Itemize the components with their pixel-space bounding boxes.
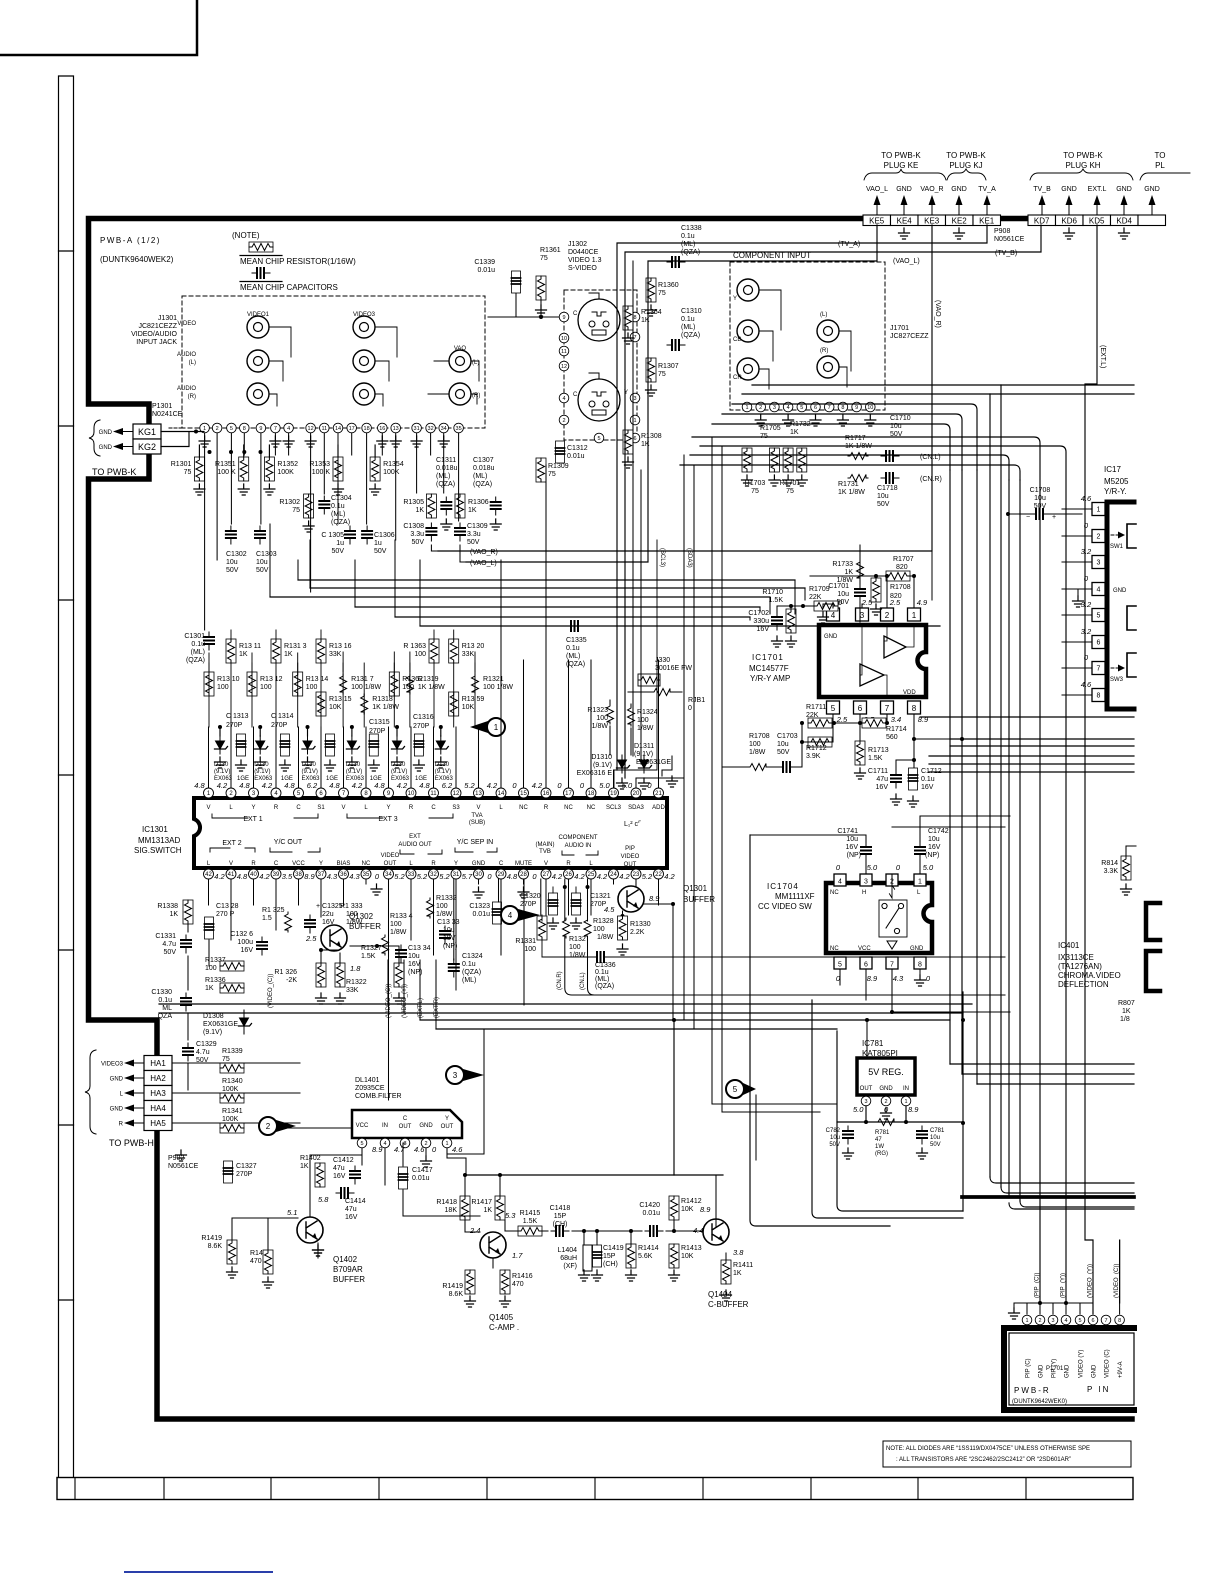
- svg-text:C-BUFFER: C-BUFFER: [708, 1300, 749, 1309]
- svg-text:NC: NC: [830, 890, 839, 896]
- svg-text:R1416: R1416: [512, 1273, 533, 1280]
- svg-text:(9.1V): (9.1V): [203, 1029, 222, 1036]
- svg-text:100: 100: [260, 684, 272, 691]
- svg-text:4.7u: 4.7u: [162, 941, 176, 948]
- svg-text:8.9: 8.9: [908, 1105, 919, 1114]
- svg-text:16V: 16V: [757, 626, 770, 633]
- svg-text:C1742: C1742: [928, 828, 949, 835]
- svg-text:100: 100: [390, 921, 402, 928]
- svg-text:R131 3: R131 3: [284, 643, 307, 650]
- svg-text:820: 820: [896, 564, 908, 571]
- svg-text:D1311: D1311: [634, 743, 654, 750]
- svg-text:GND: GND: [1144, 186, 1160, 193]
- svg-text:10u: 10u: [226, 559, 238, 566]
- svg-text:0: 0: [836, 863, 841, 872]
- svg-text:C1339: C1339: [474, 259, 495, 266]
- svg-text:GND: GND: [99, 430, 113, 436]
- svg-text:25: 25: [588, 872, 595, 878]
- svg-text:C1331: C1331: [155, 933, 176, 940]
- svg-text:C1417: C1417: [412, 1167, 433, 1174]
- svg-text:22K: 22K: [809, 594, 822, 601]
- svg-text:EX063: EX063: [346, 776, 365, 782]
- svg-text:M5205: M5205: [1104, 477, 1129, 486]
- svg-text:3: 3: [1097, 560, 1101, 567]
- svg-text:R1306: R1306: [468, 499, 489, 506]
- svg-text:R1302: R1302: [279, 499, 300, 506]
- svg-text:8.6K: 8.6K: [208, 1243, 223, 1250]
- svg-text:R1339: R1339: [222, 1048, 243, 1055]
- svg-text:(SDA3): (SDA3): [686, 548, 692, 568]
- svg-text:C1302: C1302: [226, 551, 247, 558]
- svg-text:NC: NC: [564, 805, 573, 811]
- svg-text:PIP (Y): PIP (Y): [1052, 1359, 1058, 1378]
- svg-text:50V: 50V: [777, 749, 790, 756]
- svg-text:50V: 50V: [374, 548, 387, 555]
- svg-text:MEAN CHIP CAPACITORS: MEAN CHIP CAPACITORS: [240, 283, 338, 292]
- svg-text:4.8: 4.8: [194, 781, 205, 790]
- svg-text:1: 1: [494, 723, 499, 732]
- svg-text:D130: D130: [254, 762, 269, 768]
- svg-text:(MAIN): (MAIN): [536, 842, 555, 848]
- svg-text:3: 3: [864, 1099, 867, 1105]
- svg-text:L: L: [120, 1092, 124, 1098]
- svg-text:1K: 1K: [790, 429, 799, 436]
- svg-text:R1411: R1411: [733, 1262, 753, 1269]
- svg-text:1K 1/8W: 1K 1/8W: [418, 684, 445, 691]
- svg-text:14: 14: [335, 426, 341, 432]
- svg-text:IC401: IC401: [1058, 941, 1080, 950]
- svg-text:50V: 50V: [412, 539, 425, 546]
- svg-text:BUFFER: BUFFER: [683, 895, 715, 904]
- svg-text:4.6: 4.6: [1081, 680, 1092, 689]
- svg-text:(SCL3): (SCL3): [659, 548, 665, 567]
- svg-text:L₁² c⌜: L₁² c⌜: [624, 820, 641, 828]
- svg-text:0.1u: 0.1u: [158, 997, 172, 1004]
- svg-text:4.2: 4.2: [214, 872, 225, 881]
- svg-text:10u: 10u: [877, 493, 889, 500]
- svg-text:R1413: R1413: [681, 1245, 702, 1252]
- svg-text:C1323: C1323: [469, 903, 490, 910]
- svg-text:10u: 10u: [408, 953, 420, 960]
- svg-text:1GE: 1GE: [281, 776, 293, 782]
- svg-text:NC: NC: [362, 861, 371, 867]
- svg-text:R1709: R1709: [809, 586, 830, 593]
- svg-text:C782: C782: [826, 1128, 841, 1134]
- svg-text:4: 4: [1064, 1318, 1067, 1324]
- svg-text:(ML): (ML): [681, 324, 695, 331]
- svg-text:0.01u: 0.01u: [412, 1175, 430, 1182]
- svg-text:9: 9: [855, 405, 858, 411]
- svg-text:75: 75: [548, 471, 556, 478]
- svg-text:4.8: 4.8: [419, 781, 430, 790]
- svg-text:KD4: KD4: [1116, 217, 1132, 226]
- svg-text:R: R: [431, 861, 436, 867]
- svg-text:R807: R807: [1118, 1000, 1135, 1007]
- svg-text:EX063: EX063: [214, 776, 233, 782]
- svg-text:10K: 10K: [681, 1206, 694, 1213]
- svg-text:S3: S3: [452, 805, 460, 811]
- svg-text:18: 18: [588, 791, 595, 797]
- svg-text:(TV_A): (TV_A): [838, 241, 860, 248]
- svg-text:(DUNTK9640WEK2): (DUNTK9640WEK2): [100, 255, 174, 264]
- svg-text:Q1405: Q1405: [489, 1313, 514, 1322]
- svg-text:28: 28: [520, 872, 527, 878]
- svg-text:31: 31: [414, 426, 420, 432]
- svg-text:1.5K: 1.5K: [769, 597, 784, 604]
- svg-text:R1710: R1710: [762, 589, 783, 596]
- svg-text:0.1u: 0.1u: [566, 645, 580, 652]
- svg-text:OUT: OUT: [384, 861, 397, 867]
- svg-text:270P: 270P: [236, 1171, 253, 1178]
- svg-text:SCL3: SCL3: [606, 805, 622, 811]
- svg-text:SW3: SW3: [1110, 677, 1124, 683]
- svg-text:R1352: R1352: [277, 461, 298, 468]
- svg-text:33K: 33K: [346, 987, 359, 994]
- svg-text:4.8: 4.8: [329, 781, 340, 790]
- svg-text:100 K: 100 K: [312, 469, 331, 476]
- svg-text:(ML): (ML): [473, 473, 487, 480]
- svg-text:R: R: [119, 1122, 124, 1128]
- svg-text:18: 18: [364, 426, 370, 432]
- svg-text:3: 3: [860, 611, 865, 620]
- svg-text:(TA1276AN): (TA1276AN): [1058, 962, 1102, 971]
- svg-text:4.2: 4.2: [597, 872, 608, 881]
- svg-text:7: 7: [1104, 1318, 1107, 1324]
- svg-text:8.9: 8.9: [867, 974, 878, 983]
- svg-text:V: V: [206, 805, 210, 811]
- svg-text:270P: 270P: [271, 722, 288, 729]
- svg-text:GND: GND: [1092, 1364, 1098, 1378]
- svg-text:R1301: R1301: [171, 461, 192, 468]
- svg-text:TVB: TVB: [539, 849, 551, 855]
- svg-text:4: 4: [562, 396, 565, 402]
- svg-text:(9.1V): (9.1V): [346, 769, 362, 775]
- svg-text:EX063: EX063: [302, 776, 321, 782]
- svg-text:47u: 47u: [876, 776, 888, 783]
- svg-text:D1308: D1308: [203, 1013, 224, 1020]
- svg-text:GND: GND: [951, 186, 967, 193]
- svg-text:4.2: 4.2: [487, 781, 498, 790]
- svg-text:560: 560: [886, 734, 898, 741]
- svg-text:8: 8: [1097, 693, 1101, 700]
- svg-text:1.5K: 1.5K: [361, 953, 376, 960]
- svg-text:15P: 15P: [554, 1213, 567, 1220]
- svg-text:33: 33: [408, 872, 415, 878]
- svg-text:5.6K: 5.6K: [638, 1253, 653, 1260]
- svg-text:C1741: C1741: [837, 828, 858, 835]
- svg-text:R1323: R1323: [587, 707, 608, 714]
- svg-text:10u: 10u: [830, 1135, 840, 1141]
- svg-text:C: C: [431, 805, 436, 811]
- svg-text:R1708: R1708: [749, 733, 770, 740]
- svg-text:8: 8: [243, 426, 246, 432]
- svg-text:BIAS: BIAS: [337, 861, 351, 867]
- svg-text:4: 4: [383, 1141, 386, 1147]
- svg-text:C1312: C1312: [567, 445, 588, 452]
- svg-text:+: +: [1052, 514, 1056, 521]
- svg-text:C1718: C1718: [877, 485, 898, 492]
- svg-text:0: 0: [557, 781, 562, 790]
- svg-text:50V: 50V: [829, 1142, 840, 1148]
- svg-text:21: 21: [655, 791, 662, 797]
- svg-text:OUT: OUT: [399, 1124, 412, 1130]
- svg-text:R1309: R1309: [548, 463, 569, 470]
- svg-text:KD6: KD6: [1061, 217, 1077, 226]
- svg-text:1K: 1K: [1122, 1008, 1131, 1015]
- svg-text:1/8W: 1/8W: [569, 952, 586, 959]
- svg-text:C1316: C1316: [413, 714, 434, 721]
- svg-text:30: 30: [475, 872, 482, 878]
- svg-text:5: 5: [597, 436, 600, 442]
- svg-text:R1417: R1417: [471, 1199, 492, 1206]
- svg-text:47: 47: [875, 1137, 882, 1143]
- svg-text:13: 13: [475, 791, 482, 797]
- svg-text:2: 2: [562, 418, 565, 424]
- svg-text:4.2: 4.2: [262, 781, 273, 790]
- svg-text:29: 29: [498, 872, 505, 878]
- svg-text:ADD: ADD: [652, 805, 665, 811]
- svg-text:1.5K: 1.5K: [868, 755, 883, 762]
- svg-text:R1353: R1353: [309, 461, 330, 468]
- svg-text:1K: 1K: [733, 1270, 742, 1277]
- svg-text:V: V: [476, 805, 480, 811]
- svg-text:R13 20: R13 20: [462, 643, 485, 650]
- svg-text:100: 100: [436, 903, 448, 910]
- svg-text:EXT: EXT: [409, 834, 421, 840]
- svg-text:100: 100: [596, 715, 608, 722]
- svg-text:RJB1: RJB1: [688, 697, 705, 704]
- svg-text:8: 8: [918, 962, 922, 969]
- svg-text:C1304: C1304: [331, 495, 352, 502]
- svg-text:5: 5: [230, 426, 233, 432]
- svg-text:1K: 1K: [844, 569, 853, 576]
- svg-text:P908: P908: [994, 228, 1010, 235]
- svg-text:R1708: R1708: [890, 584, 911, 591]
- svg-text:0: 0: [512, 781, 517, 790]
- svg-text:R1415: R1415: [520, 1210, 541, 1217]
- svg-text:5.8: 5.8: [318, 1195, 329, 1204]
- svg-text:KE1: KE1: [979, 217, 995, 226]
- svg-text:30016E FW: 30016E FW: [655, 665, 692, 672]
- svg-text:VCC: VCC: [858, 946, 871, 952]
- svg-text:4: 4: [508, 911, 513, 920]
- svg-text:33K: 33K: [329, 651, 342, 658]
- svg-text:0.1u: 0.1u: [462, 961, 476, 968]
- svg-text:5.1: 5.1: [287, 1208, 297, 1217]
- svg-text:R13 11: R13 11: [239, 643, 261, 650]
- svg-text:KD5: KD5: [1089, 217, 1105, 226]
- svg-text:EX063: EX063: [391, 776, 410, 782]
- svg-text:(DUNTK9642WEK0): (DUNTK9642WEK0): [1012, 1399, 1067, 1405]
- svg-text:41: 41: [228, 872, 235, 878]
- svg-text:5.2: 5.2: [394, 872, 405, 881]
- svg-text:R: R: [274, 805, 279, 811]
- svg-text:(CN.R): (CN.R): [920, 476, 942, 483]
- svg-text:(9.1V): (9.1V): [391, 769, 407, 775]
- svg-text:3.3K: 3.3K: [1104, 868, 1119, 875]
- svg-text:B709AR: B709AR: [333, 1265, 363, 1274]
- svg-text:GND: GND: [896, 186, 912, 193]
- svg-text:EXT 3: EXT 3: [378, 816, 397, 823]
- svg-text:VIDEO/AUDIO: VIDEO/AUDIO: [131, 331, 177, 338]
- svg-text:8.9: 8.9: [304, 872, 315, 881]
- svg-text:7: 7: [890, 962, 894, 969]
- svg-text:(9.1V): (9.1V): [214, 769, 230, 775]
- svg-text:Y: Y: [445, 1116, 449, 1122]
- svg-text:24: 24: [610, 872, 617, 878]
- svg-text:4.6: 4.6: [1081, 494, 1092, 503]
- svg-text:GND: GND: [99, 445, 113, 451]
- svg-text:+ C1325: + C1325: [316, 903, 343, 910]
- svg-text:C1330: C1330: [151, 989, 172, 996]
- svg-text:8.9: 8.9: [700, 1205, 711, 1214]
- svg-text:R1 325: R1 325: [262, 907, 285, 914]
- svg-text:100: 100: [569, 944, 581, 951]
- svg-text:3: 3: [773, 405, 776, 411]
- svg-text:0: 0: [896, 863, 901, 872]
- svg-text:TV_B: TV_B: [1033, 186, 1051, 193]
- svg-text:TO PWB-K: TO PWB-K: [92, 467, 136, 477]
- svg-text:R814: R814: [1101, 860, 1118, 867]
- svg-text:40: 40: [250, 872, 257, 878]
- svg-text:R1331: R1331: [515, 938, 536, 945]
- svg-text:7: 7: [274, 426, 277, 432]
- svg-text:100K: 100K: [277, 469, 294, 476]
- svg-text:C132 6: C132 6: [230, 931, 253, 938]
- svg-text:100K: 100K: [383, 469, 400, 476]
- svg-text:16V: 16V: [846, 844, 859, 851]
- svg-text:J1701: J1701: [890, 325, 909, 332]
- svg-text:0: 0: [647, 781, 652, 790]
- svg-text:R1324: R1324: [637, 709, 658, 716]
- svg-text:Y/C SEP IN: Y/C SEP IN: [457, 839, 493, 846]
- svg-text:6.2: 6.2: [442, 781, 453, 790]
- svg-text:50V: 50V: [226, 567, 239, 574]
- svg-text:16V: 16V: [928, 844, 941, 851]
- svg-text:4.7: 4.7: [394, 1145, 405, 1154]
- svg-text:17: 17: [349, 426, 355, 432]
- svg-text:NOTE: ALL DIODES ARE “1SS119/D: NOTE: ALL DIODES ARE “1SS119/DX0475CE” U…: [886, 1446, 1090, 1452]
- svg-text:6: 6: [1097, 640, 1101, 647]
- svg-text:0.01u: 0.01u: [477, 267, 495, 274]
- svg-text:20: 20: [633, 791, 640, 797]
- svg-text:4.2: 4.2: [532, 781, 543, 790]
- svg-text:R1330: R1330: [630, 921, 651, 928]
- svg-text:VAO_R: VAO_R: [920, 186, 943, 193]
- svg-text:VIDEO: VIDEO: [177, 321, 196, 327]
- svg-text:4.8: 4.8: [284, 781, 295, 790]
- svg-text:4: 4: [1097, 587, 1101, 594]
- svg-text:OUT: OUT: [860, 1086, 873, 1092]
- svg-text:D1310: D1310: [591, 754, 612, 761]
- svg-text:R1703: R1703: [745, 480, 766, 487]
- svg-text:R13 59: R13 59: [462, 696, 485, 703]
- svg-text:TO PWB-H: TO PWB-H: [109, 1138, 154, 1148]
- svg-text:10u: 10u: [256, 559, 268, 566]
- svg-text:16V: 16V: [345, 1214, 358, 1221]
- svg-text:R13 15: R13 15: [329, 696, 352, 703]
- svg-text:39: 39: [273, 872, 280, 878]
- svg-text:0: 0: [432, 1145, 437, 1154]
- svg-text:R1717: R1717: [845, 435, 866, 442]
- svg-text:50V: 50V: [877, 501, 890, 508]
- svg-text:R1713: R1713: [868, 747, 889, 754]
- svg-text:42: 42: [205, 872, 212, 878]
- svg-text:R1705: R1705: [760, 425, 781, 432]
- svg-text:5: 5: [733, 1085, 738, 1094]
- svg-text:2: 2: [1097, 534, 1101, 541]
- svg-text:C1327: C1327: [236, 1163, 257, 1170]
- svg-text:R131 7: R131 7: [351, 676, 374, 683]
- svg-text:4.8: 4.8: [239, 781, 250, 790]
- svg-text:100 1/8W: 100 1/8W: [351, 684, 381, 691]
- svg-text:N0561CE: N0561CE: [994, 236, 1025, 243]
- svg-text:14: 14: [498, 791, 505, 797]
- svg-text:Q1301: Q1301: [683, 884, 708, 893]
- svg-text:(QZA): (QZA): [186, 657, 205, 664]
- svg-text:(NOTE): (NOTE): [232, 231, 260, 240]
- svg-text:D130: D130: [346, 762, 361, 768]
- svg-text:3: 3: [453, 1071, 458, 1080]
- svg-text:1GE: 1GE: [370, 776, 382, 782]
- svg-text:NC: NC: [519, 805, 528, 811]
- svg-text:NC: NC: [587, 805, 596, 811]
- svg-text:Q1402: Q1402: [333, 1255, 358, 1264]
- svg-text:3: 3: [633, 396, 636, 402]
- svg-text:0: 0: [580, 781, 585, 790]
- svg-text:3.9K: 3.9K: [806, 753, 821, 760]
- svg-text:47u: 47u: [333, 1165, 345, 1172]
- svg-text:50V: 50V: [332, 548, 345, 555]
- svg-text:50V: 50V: [164, 949, 177, 956]
- svg-text:26: 26: [565, 872, 572, 878]
- svg-text:(R): (R): [820, 348, 828, 354]
- svg-text:75: 75: [658, 371, 666, 378]
- svg-text:100K: 100K: [222, 1086, 239, 1093]
- svg-text:10K: 10K: [329, 704, 342, 711]
- svg-text:CC VIDEO SW: CC VIDEO SW: [758, 902, 812, 911]
- svg-text:7: 7: [1097, 666, 1101, 673]
- svg-text:C1311: C1311: [436, 457, 456, 464]
- svg-text:4.2: 4.2: [574, 872, 585, 881]
- svg-text:HA2: HA2: [150, 1074, 166, 1083]
- svg-text:8.6K: 8.6K: [449, 1291, 464, 1298]
- svg-text:R1305: R1305: [403, 499, 424, 506]
- svg-text:Y: Y: [319, 861, 323, 867]
- svg-text:2: 2: [266, 1122, 271, 1131]
- svg-text:75: 75: [658, 290, 666, 297]
- svg-text:4.2: 4.2: [217, 781, 228, 790]
- svg-text:IC1701: IC1701: [752, 653, 784, 662]
- svg-text:4.6: 4.6: [414, 1145, 425, 1154]
- svg-text:J1302: J1302: [568, 241, 587, 248]
- svg-text:4.9: 4.9: [917, 598, 928, 607]
- svg-text:C: C: [403, 1116, 408, 1122]
- svg-text:4.6: 4.6: [452, 1145, 463, 1154]
- svg-text:D0440CE: D0440CE: [568, 249, 599, 256]
- svg-text:5.7: 5.7: [462, 872, 473, 881]
- svg-text:0.01u: 0.01u: [642, 1210, 660, 1217]
- svg-text:HA4: HA4: [150, 1104, 166, 1113]
- svg-text:R1354: R1354: [383, 461, 404, 468]
- svg-text:1K 1/8W: 1K 1/8W: [838, 489, 865, 496]
- svg-text:15P: 15P: [603, 1253, 616, 1260]
- svg-text:(9.1V): (9.1V): [302, 769, 318, 775]
- svg-text:PIP: PIP: [625, 846, 635, 852]
- svg-text:68uH: 68uH: [560, 1255, 577, 1262]
- svg-text:R1711: R1711: [806, 704, 826, 711]
- svg-text:2: 2: [216, 426, 219, 432]
